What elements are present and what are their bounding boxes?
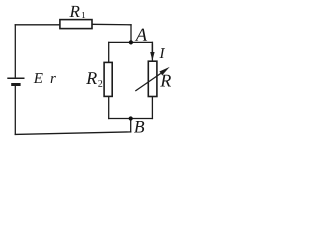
wire top right: [92, 23, 131, 26]
label A: [135, 29, 147, 41]
wire node A horizontal: [109, 41, 153, 43]
label r: [51, 76, 56, 83]
battery E r: [7, 78, 24, 84]
wire top left: [15, 24, 60, 26]
current arrow I: [150, 44, 154, 61]
wire bottom: [15, 132, 130, 135]
resistor R2: [104, 62, 112, 96]
label R rheostat: [160, 75, 171, 87]
resistor R1: [60, 20, 92, 29]
label I: [159, 48, 165, 58]
node A: [129, 40, 133, 44]
label R2 sub 2: [98, 80, 102, 87]
label B: [134, 121, 144, 133]
node B: [129, 116, 133, 120]
wire right drop to node A: [130, 25, 132, 43]
wire left vertical bottom: [14, 86, 16, 135]
label R1 R: [69, 6, 79, 17]
wire R to B: [151, 97, 153, 119]
label R1 sub 1: [82, 12, 85, 18]
wire B drop to bottom: [130, 119, 132, 132]
wire left vertical top: [14, 25, 16, 77]
label R2 R: [86, 72, 97, 84]
wire R2 to B: [108, 96, 110, 118]
wire node B horizontal: [109, 118, 153, 120]
rheostat R: [135, 61, 169, 96]
wire A to R: [151, 42, 153, 61]
wire A to R2: [108, 42, 110, 62]
label E: [34, 73, 43, 83]
